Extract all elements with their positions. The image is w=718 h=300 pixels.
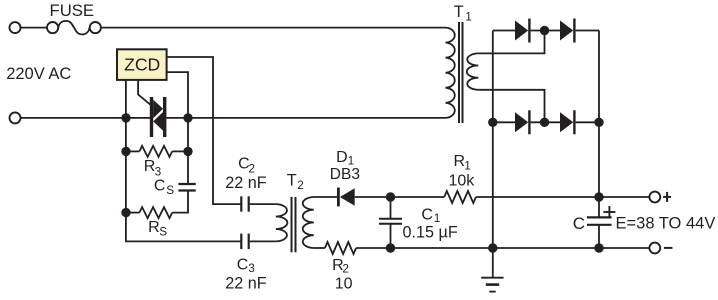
- svg-text:C: C: [421, 207, 433, 224]
- svg-text:ZCD: ZCD: [124, 54, 160, 74]
- svg-text:220V AC: 220V AC: [6, 65, 71, 83]
- svg-text:1: 1: [464, 158, 471, 172]
- svg-text:10: 10: [335, 276, 353, 293]
- svg-text:2: 2: [297, 178, 304, 192]
- svg-text:0.15 µF: 0.15 µF: [403, 224, 458, 242]
- svg-text:22 nF: 22 nF: [225, 275, 267, 293]
- svg-text:DB3: DB3: [330, 166, 360, 183]
- svg-text:C: C: [573, 214, 585, 233]
- svg-text:2: 2: [342, 262, 349, 276]
- svg-text:22 nF: 22 nF: [225, 174, 267, 192]
- svg-text:C: C: [237, 257, 249, 274]
- svg-text:T: T: [287, 172, 297, 190]
- svg-text:R: R: [148, 219, 160, 236]
- svg-text:1: 1: [465, 10, 472, 24]
- svg-text:FUSE: FUSE: [50, 1, 95, 20]
- svg-text:S: S: [166, 183, 174, 197]
- svg-text:D: D: [336, 149, 348, 166]
- svg-text:T: T: [454, 3, 464, 21]
- svg-text:10k: 10k: [449, 173, 476, 190]
- svg-text:E=38 TO 44V: E=38 TO 44V: [616, 215, 716, 233]
- svg-text:3: 3: [155, 164, 162, 178]
- svg-text:C: C: [154, 177, 166, 194]
- svg-text:3: 3: [248, 261, 255, 275]
- svg-text:S: S: [159, 225, 167, 239]
